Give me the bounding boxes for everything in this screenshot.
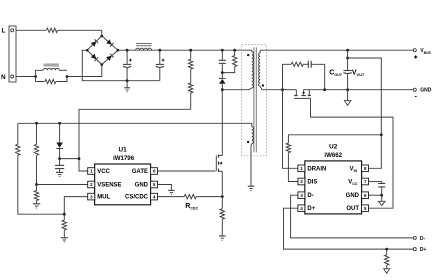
- label N: [1, 74, 6, 81]
- node C2 top: [158, 49, 161, 52]
- node clamp mid: [221, 71, 224, 74]
- wire diode to VCC rail: [60, 158, 79, 160]
- label OUT pin: [346, 206, 359, 212]
- label GND terminal: [420, 88, 432, 94]
- diode D2 (bridge top-right): [106, 39, 113, 46]
- label VOUT: [352, 70, 365, 78]
- wire RCDC to source: [196, 196, 222, 198]
- svg-text:D+: D+: [420, 247, 427, 253]
- label D- pin: [307, 193, 313, 199]
- diode D6 (clamp): [219, 73, 226, 90]
- label GATE: [132, 169, 148, 175]
- label VBUS: [420, 48, 431, 55]
- label U1: [119, 147, 128, 154]
- node primary phase dot: [247, 54, 249, 56]
- terminal D+: [413, 248, 416, 251]
- svg-text:L: L: [2, 28, 6, 35]
- resistor RST1: [189, 50, 193, 69]
- node vcc cap: [58, 157, 61, 160]
- wire output gnd: [325, 89, 414, 91]
- wire vbus to vin: [348, 58, 382, 168]
- label U2: [329, 144, 338, 151]
- node dis line: [380, 133, 383, 136]
- pin 3 U1: [88, 193, 95, 200]
- svg-text:MUL: MUL: [97, 195, 110, 201]
- svg-text:DRAIN: DRAIN: [307, 166, 326, 172]
- label VSENSE: [97, 183, 121, 189]
- node vcc vertical: [78, 157, 81, 160]
- pin 1 U2: [298, 165, 305, 172]
- label GND: [135, 183, 149, 189]
- svg-text:U2: U2: [329, 144, 338, 151]
- resistor R2 (vsense upper): [34, 123, 38, 184]
- wire secondary bottom: [260, 86, 282, 89]
- transformer core: [254, 47, 256, 152]
- capacitor C6 (U2 VCC): [369, 182, 386, 196]
- node C1 top: [126, 49, 129, 52]
- svg-text:D-: D-: [307, 193, 313, 199]
- svg-text:OUT: OUT: [346, 206, 359, 212]
- label RCDC: [185, 203, 198, 211]
- label VCC pin: [348, 180, 358, 187]
- capacitor C3 (clamp): [219, 50, 226, 72]
- node C1 bottom: [126, 79, 129, 82]
- svg-text:U1: U1: [119, 147, 128, 154]
- svg-text:DIS: DIS: [307, 180, 317, 186]
- resistor RCDC: [184, 194, 196, 198]
- ground MUL: [61, 238, 68, 242]
- node choke-left: [34, 75, 37, 78]
- wire N to choke: [16, 76, 36, 78]
- node secondary phase dot: [262, 84, 264, 86]
- pin 2 U1: [88, 181, 95, 188]
- transistor Q1 (primary MOSFET): [216, 90, 222, 197]
- ground primary (bulk): [124, 81, 130, 92]
- pin 5 U1: [151, 181, 158, 188]
- ground U1 GND pin: [158, 185, 175, 195]
- diode D5 (VCC rectifier): [56, 123, 63, 158]
- label D+ pin: [307, 206, 315, 212]
- node aux phase dot: [247, 141, 249, 143]
- capacitor C2 (bulk +): [156, 50, 165, 80]
- label COUT: [329, 70, 342, 78]
- svg-text:D-: D-: [420, 236, 426, 242]
- capacitor C1 (bulk +): [123, 50, 132, 80]
- svg-text:GND: GND: [346, 193, 360, 199]
- capacitor COUT: [343, 50, 351, 89]
- pin 1 U1: [88, 168, 95, 175]
- capacitor C4 (VCC): [55, 159, 64, 173]
- label minus: [415, 96, 417, 98]
- connector J1 (AC input): [9, 26, 16, 82]
- node Cout top: [346, 49, 349, 52]
- label D+ terminal: [420, 247, 427, 253]
- ground aux: [248, 144, 255, 191]
- svg-text:CS/CDC: CS/CDC: [125, 195, 149, 201]
- wire primary bottom: [222, 88, 252, 90]
- pin 4 U2: [298, 205, 305, 212]
- pin 8 U2: [362, 165, 369, 172]
- label DIS: [307, 180, 317, 186]
- node source: [221, 195, 224, 198]
- node vsense: [35, 183, 38, 186]
- svg-text:N: N: [1, 74, 6, 81]
- wire drain U2: [283, 90, 298, 169]
- label iW1796: [113, 155, 135, 162]
- label L: [2, 28, 6, 35]
- resistor R4 (clamp): [222, 50, 237, 72]
- node divider top: [189, 49, 192, 52]
- wire MUL: [64, 197, 87, 215]
- wire secondary top: [260, 49, 413, 51]
- node drain top: [221, 88, 224, 91]
- wire L to RF1: [16, 29, 46, 31]
- bridge BR1 frame: [87, 36, 118, 65]
- label GND pin U2: [346, 193, 360, 199]
- label VIN pin: [350, 166, 358, 173]
- resistor R1 (line sense): [16, 123, 65, 214]
- resistor RF1: [47, 28, 58, 32]
- wire choke to bridge bottom: [67, 65, 102, 77]
- node MUL: [63, 213, 66, 216]
- pin 7 U2: [362, 178, 369, 185]
- node bridge right: [117, 49, 120, 52]
- wire pin4: [158, 196, 185, 198]
- capacitor C5 (snubber): [303, 61, 325, 90]
- svg-text:VSENSE: VSENSE: [97, 183, 121, 189]
- wire aux sense line: [18, 122, 252, 124]
- winding primary: [252, 50, 254, 88]
- diode D1 (bridge top-left): [91, 39, 98, 46]
- node U2 gnd: [380, 194, 383, 197]
- node choke-right: [66, 75, 69, 78]
- label iW662: [324, 152, 342, 159]
- inductor LF1 (choke top): [36, 64, 67, 76]
- resistor RST2: [189, 69, 193, 109]
- ground output: [344, 90, 350, 106]
- svg-text:iW1796: iW1796: [113, 155, 135, 162]
- resistor R6 (current sense): [220, 197, 224, 236]
- node vin tap: [346, 57, 349, 60]
- node aux R2: [35, 122, 38, 125]
- node aux D5: [58, 122, 61, 125]
- ground U2: [378, 195, 385, 205]
- transformer T1 dashed box: [242, 45, 267, 156]
- resistor RD1 (choke damping): [36, 77, 67, 84]
- terminal GND: [413, 88, 416, 91]
- ground VCC cap: [56, 172, 63, 176]
- wire bridge- to rail: [82, 50, 160, 80]
- transistor Q2 (sync rect MOSFET): [283, 90, 325, 99]
- pin 4 U1: [151, 193, 158, 200]
- inductor L1 (pi filter): [136, 44, 152, 51]
- label DRAIN: [307, 166, 326, 172]
- resistor R8 (DIS): [286, 135, 381, 182]
- wire RF1 to bridge top: [58, 30, 102, 36]
- diode D4 (bridge bottom-right): [106, 54, 113, 61]
- label MUL: [97, 195, 110, 201]
- svg-text:iW662: iW662: [324, 152, 342, 159]
- resistor R5 (MUL lower): [62, 214, 66, 237]
- label plus: [414, 55, 417, 58]
- wire gnd U2: [369, 194, 382, 196]
- label CS/CDC: [125, 195, 149, 201]
- diode D3 (bridge bottom-left): [91, 54, 98, 61]
- node bridge left: [86, 49, 89, 52]
- wire OUT to gate: [311, 98, 394, 208]
- terminal VBUS: [413, 49, 416, 52]
- op-amp U2 iW662 box: [305, 161, 362, 214]
- terminal D-: [413, 236, 416, 239]
- node clamp res top: [233, 49, 236, 52]
- svg-text:D+: D+: [307, 206, 315, 212]
- svg-text:GND: GND: [420, 88, 432, 94]
- pin 6 U2: [362, 192, 369, 199]
- wire gate U1: [158, 170, 216, 172]
- node bridge bottom: [101, 63, 104, 66]
- ground sense resistor: [219, 236, 226, 240]
- node bridge top: [101, 35, 104, 38]
- resistor R3 (vsense lower): [34, 185, 38, 204]
- pin 5 U2: [362, 205, 369, 212]
- svg-text:GATE: GATE: [132, 169, 148, 175]
- node drain sync: [323, 88, 326, 91]
- op-amp U1 iW1796 box: [95, 164, 151, 205]
- resistor R7 (snubber): [283, 62, 304, 90]
- svg-text:GND: GND: [135, 183, 149, 189]
- node D+ pulldown: [385, 248, 388, 251]
- wire D+ line: [284, 208, 414, 249]
- label VCC: [97, 169, 110, 175]
- ground vsense: [33, 204, 41, 208]
- label D- terminal: [420, 236, 426, 242]
- resistor R9 (D+ pulldown): [385, 249, 389, 269]
- ground D+ resistor: [384, 269, 390, 274]
- wire D- line: [291, 195, 414, 238]
- wire + rail: [118, 49, 252, 51]
- pin 6 U1: [151, 168, 158, 175]
- node sync source: [281, 88, 284, 91]
- node Cout bottom: [346, 88, 349, 91]
- winding secondary: [259, 50, 261, 86]
- wire startup to VCC: [79, 109, 191, 171]
- wire vsense to pin2: [37, 184, 88, 186]
- svg-text:VCC: VCC: [97, 169, 110, 175]
- winding auxiliary: [252, 123, 254, 143]
- node clamp cap top: [221, 49, 224, 52]
- pin 2 U2: [298, 178, 305, 185]
- pin 3 U2: [298, 192, 305, 199]
